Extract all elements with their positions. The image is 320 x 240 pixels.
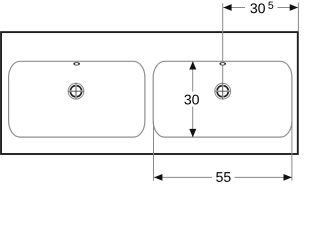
top dimension line 30^5 right segment — [278, 7, 298, 9]
left basin bowl — [9, 61, 145, 137]
top dimension right arrow — [290, 4, 298, 11]
bottom dimension text 55 — [216, 172, 230, 182]
drain valve right basin — [215, 83, 231, 99]
overflow slot left basin — [74, 63, 79, 66]
right basin bowl — [153, 61, 292, 137]
vertical dimension text 30 — [184, 95, 199, 105]
vertical dimension 30 line lower segment — [192, 107, 194, 137]
top dimension superscript 5 — [268, 2, 273, 9]
extension line at outer right edge for top dimension — [297, 3, 299, 32]
top dimension left arrow — [223, 4, 231, 11]
bottom dimension extension line right — [291, 122, 293, 181]
overflow slot right basin — [220, 63, 225, 66]
drain valve left basin — [68, 83, 84, 99]
overflow slot left end dots — [73, 63, 75, 65]
bottom dimension extension line centre — [153, 122, 155, 181]
bottom dimension line 55 left segment — [154, 176, 212, 178]
top dimension text 30 — [250, 3, 265, 13]
extension line from right drain centre up to top dimension — [222, 3, 224, 83]
vertical dimension 30 line upper segment — [192, 62, 194, 92]
overflow slot right end dots — [219, 63, 221, 65]
vertical dimension up arrow — [189, 61, 196, 69]
washbasin outer rim rect — [1, 32, 298, 154]
bottom dimension right arrow — [284, 174, 292, 181]
bottom dimension left arrow — [154, 174, 162, 181]
top dimension line 30^5 left segment — [223, 7, 245, 9]
bottom dimension line 55 right segment — [235, 176, 292, 178]
vertical dimension down arrow — [189, 129, 196, 137]
